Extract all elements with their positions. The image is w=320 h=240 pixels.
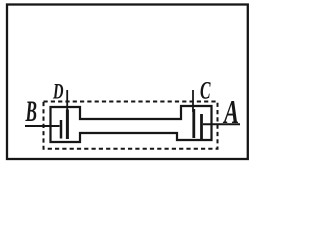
node label B: [25, 95, 37, 128]
frame border: [7, 5, 248, 160]
node label C: [200, 78, 211, 105]
svg-text:B: B: [25, 95, 37, 128]
capacitor right plate (A side): [200, 114, 203, 139]
capacitor left plate (B side): [60, 120, 63, 139]
capacitor right plate (D side): [66, 110, 69, 140]
wire A lead: [203, 123, 240, 125]
node label A: [223, 94, 239, 131]
wire B lead: [25, 125, 60, 127]
conductor dog-bone outline: [51, 106, 212, 142]
svg-text:A: A: [223, 94, 239, 131]
svg-text:C: C: [200, 78, 211, 105]
svg-text:D: D: [52, 79, 63, 104]
dashed boundary (dashed rectangle enclosure): [44, 102, 218, 149]
capacitor left plate (C side): [192, 109, 195, 138]
wire D lead: [66, 90, 68, 112]
node label D: [52, 79, 63, 104]
wire C lead: [192, 90, 194, 112]
